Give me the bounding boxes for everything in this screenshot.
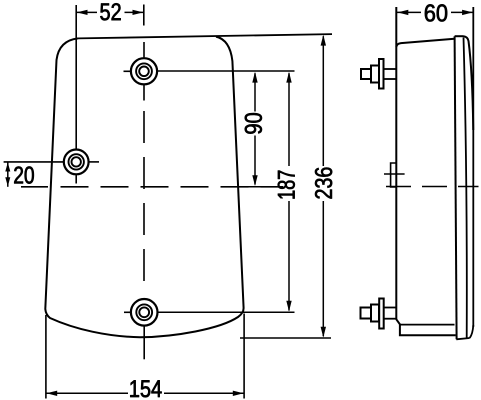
left bolt — [64, 150, 89, 175]
side view dashed centerline — [386, 186, 479, 188]
vertical dashed centerline of front view — [143, 111, 145, 294]
arrow 154 left — [46, 391, 57, 396]
lens strip top-right corner taper — [464, 36, 474, 130]
middle mounting boss on side view — [391, 163, 397, 187]
label 236 — [315, 168, 332, 199]
dimension line 60 — [397, 11, 421, 13]
label 187 — [278, 171, 295, 199]
label 52 — [100, 3, 120, 20]
arrow 236 down — [321, 327, 326, 338]
extension line from lamp bottom to 236 dim — [240, 337, 331, 339]
lens strip back edge and 60 dim right extension — [472, 7, 474, 327]
lens strip left edge — [455, 36, 457, 339]
bottom stud shaft — [384, 307, 396, 309]
arrow 20 down — [5, 177, 10, 186]
lamp top edge and extension line to 236 dim — [78, 34, 332, 38]
arrow 52 right — [133, 10, 144, 15]
horizontal dashed centerline of front view — [21, 186, 48, 188]
label 60 — [425, 4, 447, 21]
arrow 187 up — [286, 72, 291, 83]
arrow 60 left — [398, 10, 409, 15]
arrow 154 right — [233, 391, 244, 396]
bottom bolt arms — [124, 312, 144, 359]
extension line for 52 dim and left bolt vertical arm — [75, 5, 77, 149]
top stud shaft — [384, 68, 397, 70]
arrow 90 up — [252, 72, 257, 83]
lens strip bottom-right corner — [470, 325, 474, 338]
bottom stud nut — [371, 305, 379, 322]
extension line from top bolt to 90 and 187 dims — [158, 70, 295, 72]
extension line 154 right — [243, 314, 245, 399]
dimension line 20 — [7, 162, 9, 187]
top stud nut — [371, 66, 379, 83]
top stud thread — [361, 69, 371, 79]
bottom stud washer flange — [379, 299, 384, 329]
dimension line 90 — [254, 73, 256, 111]
bottom stud thread — [361, 308, 372, 319]
bottom bolt — [131, 299, 158, 326]
dimension line 187 — [288, 73, 290, 166]
label 20 — [14, 167, 34, 184]
side view bottom flange — [396, 319, 455, 335]
top bolt — [131, 58, 157, 84]
lens strip top edge — [455, 35, 464, 37]
label 154 — [130, 380, 161, 397]
extension line 52 right — [143, 5, 145, 26]
dimension line 52 — [76, 11, 97, 13]
top bolt crosshair arms — [124, 42, 145, 101]
side view body top edge — [396, 39, 454, 47]
extension line from bottom bolt to 187 dim — [158, 311, 294, 313]
label 90 — [245, 113, 262, 134]
arrow 236 up — [321, 35, 326, 46]
left bolt horizontal line to far left — [4, 161, 63, 163]
top stud washer flange — [379, 59, 384, 89]
dimension line 154 — [46, 392, 128, 394]
side view front face line and 60 dim left extension — [395, 7, 397, 320]
left bolt bottom arm — [75, 175, 77, 183]
lens strip bottom edge — [456, 338, 469, 339]
extension line 154 left — [45, 315, 47, 399]
arrow 60 right — [462, 10, 473, 15]
lamp front-view outline — [45, 37, 243, 338]
tick at 90 dim bottom — [244, 186, 269, 188]
arrow 90 down — [252, 175, 257, 186]
arrow 20 up — [5, 162, 10, 171]
dimension line 236 — [322, 36, 324, 166]
arrow 52 left — [77, 10, 88, 15]
arrow 187 down — [286, 301, 291, 312]
lens strip inner contour — [464, 38, 467, 339]
middle boss tick — [384, 173, 405, 175]
